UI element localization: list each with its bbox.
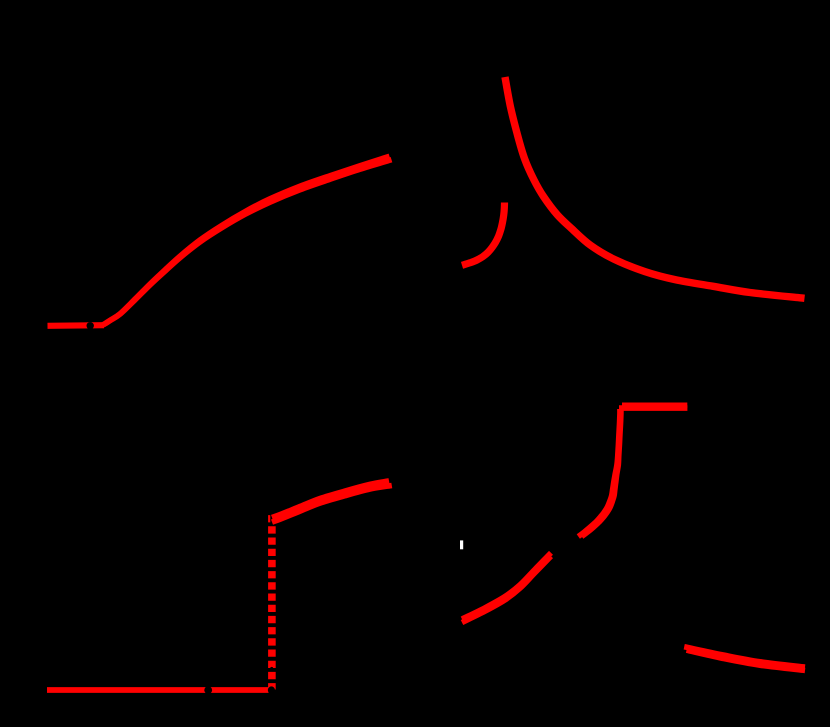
bottom-right panel: plateau segment (stroke A): [622, 402, 687, 408]
bottom-right panel: steep rising branch (stroke B): [582, 409, 621, 537]
bottom-left panel: upper-phase rising curve (stroke B): [272, 486, 392, 523]
bottom-left panel: black point marker at transition: [268, 686, 275, 693]
top-left panel: flat segment of order-parameter curve: [48, 322, 105, 329]
bottom-left panel: dotted vertical jump line: [268, 515, 276, 689]
top-right panel: left branch of diverging curve: [462, 203, 505, 266]
bottom-left panel: low-phase horizontal line: [47, 687, 269, 693]
bottom-right panel: lower-right falling branch (stroke A): [684, 647, 805, 667]
top-left panel: rising order-parameter curve (stroke B): [103, 160, 392, 325]
white tick mark: [460, 540, 463, 549]
bottom-right panel: lower-left rising branch (stroke A): [462, 553, 551, 619]
top-right panel: right branch of diverging curve: [505, 77, 805, 298]
bottom-right panel: lower-right falling branch (stroke B): [687, 650, 806, 670]
bottom-left panel: black junction dot at top of dashed line: [270, 514, 272, 523]
bottom-left panel: upper-phase rising curve (stroke A): [272, 481, 389, 518]
bottom-left panel: small black notch dot on dash: [270, 667, 273, 670]
top-left panel: black point marker on flat segment: [87, 322, 94, 329]
bottom-left panel: black point marker on horizontal line: [204, 686, 212, 694]
top-left panel: rising order-parameter curve (stroke A): [103, 156, 390, 325]
bottom-right panel: steep rising branch (stroke A): [578, 409, 620, 537]
bottom-right panel: plateau segment (stroke B): [619, 405, 687, 411]
bottom-right panel: lower-left rising branch (stroke B): [462, 556, 551, 622]
